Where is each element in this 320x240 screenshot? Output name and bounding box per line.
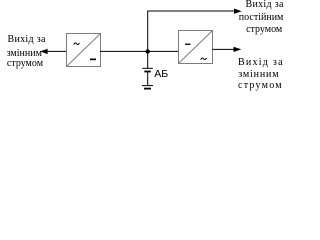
wire: DC output bus with arrow (top right) bbox=[147, 9, 242, 14]
converter U1 (AC/DC rectifier) bbox=[67, 34, 101, 67]
label: Вихід за змінним струмом (left AC output), line 1 bbox=[8, 35, 46, 45]
wire: AC output arrow (left) from converter U1 input bbox=[40, 49, 66, 54]
label: Вихід за змінним струмом (bottom right AC output), line 1 bbox=[238, 58, 284, 68]
wire: U2 output to AC output arrow (right) bbox=[213, 47, 242, 52]
wire: riser from node A up to DC output bus bbox=[147, 11, 149, 51]
wire: node A to converter U2 input bbox=[148, 50, 179, 52]
label: top right DC output, line 2 bbox=[239, 13, 284, 23]
wire: U1 output to node A bbox=[100, 50, 148, 52]
label: left AC output, line 3 bbox=[7, 59, 43, 69]
label: left AC output, line 2 bbox=[7, 49, 42, 59]
wire: node A down to battery bbox=[147, 51, 149, 68]
label: bottom right AC output, line 3 bbox=[238, 81, 283, 91]
label: АБ (battery designator) bbox=[154, 69, 168, 79]
node A (junction dot) bbox=[146, 49, 150, 53]
converter U2 (DC/AC inverter) bbox=[179, 31, 213, 64]
label: Вихід за постійним струмом (top right DC output), line 1 bbox=[246, 0, 284, 10]
battery АБ (accumulator battery, two cells) bbox=[142, 68, 153, 89]
label: top right DC output, line 3 bbox=[246, 25, 282, 35]
label: bottom right AC output, line 2 bbox=[238, 70, 279, 80]
